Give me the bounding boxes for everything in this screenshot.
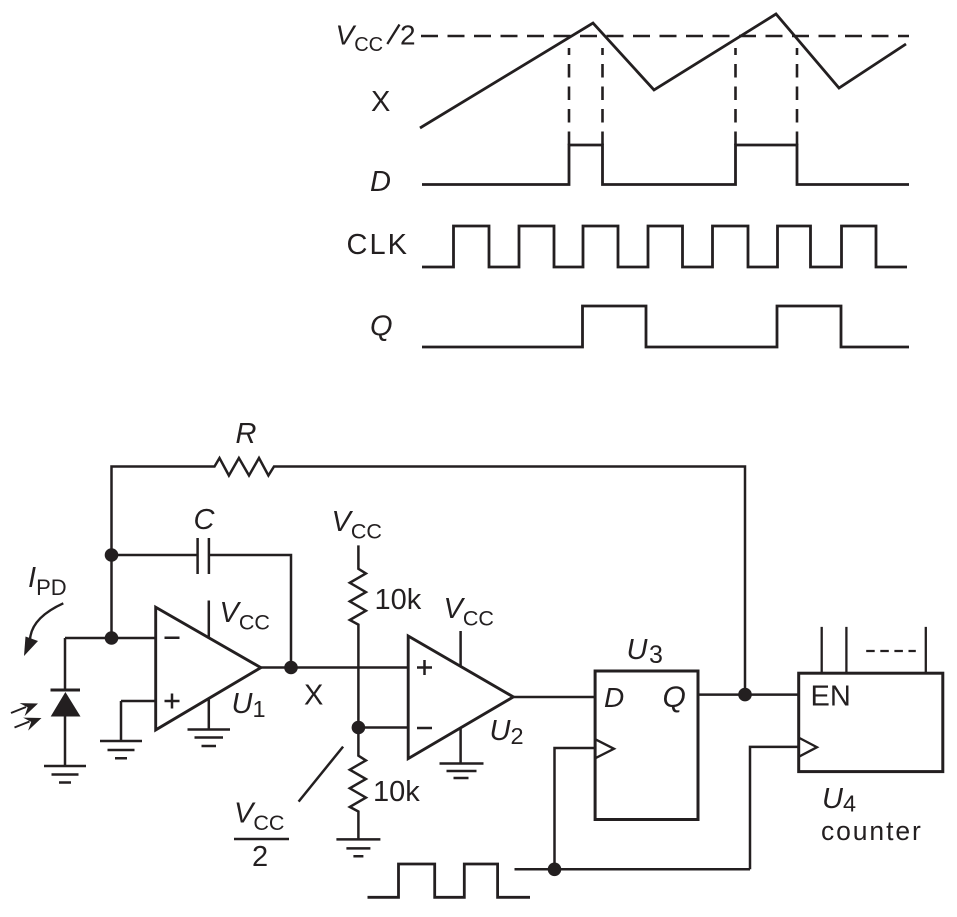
svg-text:IPD: IPD	[28, 562, 67, 600]
svg-text:X: X	[304, 680, 323, 712]
svg-text:2: 2	[400, 20, 416, 51]
svg-text:Q: Q	[370, 311, 393, 343]
svg-text:D: D	[370, 166, 391, 198]
svg-text:2: 2	[252, 841, 268, 873]
svg-text:Q: Q	[663, 681, 686, 714]
svg-text:counter: counter	[821, 816, 923, 846]
svg-text:U3: U3	[627, 634, 663, 669]
svg-text:VCC: VCC	[332, 506, 382, 544]
svg-text:VCC: VCC	[444, 593, 494, 631]
svg-text:X: X	[371, 86, 390, 118]
svg-text:EN: EN	[811, 681, 851, 713]
svg-text:U1: U1	[232, 688, 266, 722]
svg-text:VCC: VCC	[234, 798, 284, 836]
svg-text:VCC: VCC	[336, 20, 384, 57]
svg-text:VCC: VCC	[220, 597, 270, 635]
svg-text:10k: 10k	[373, 776, 420, 808]
svg-text:C: C	[194, 504, 216, 536]
svg-text:CLK: CLK	[347, 229, 409, 261]
svg-text:D: D	[604, 682, 624, 713]
svg-text:U4: U4	[822, 783, 856, 817]
svg-text:10k: 10k	[375, 584, 422, 616]
svg-text:R: R	[236, 418, 257, 450]
svg-text:U2: U2	[490, 715, 524, 749]
